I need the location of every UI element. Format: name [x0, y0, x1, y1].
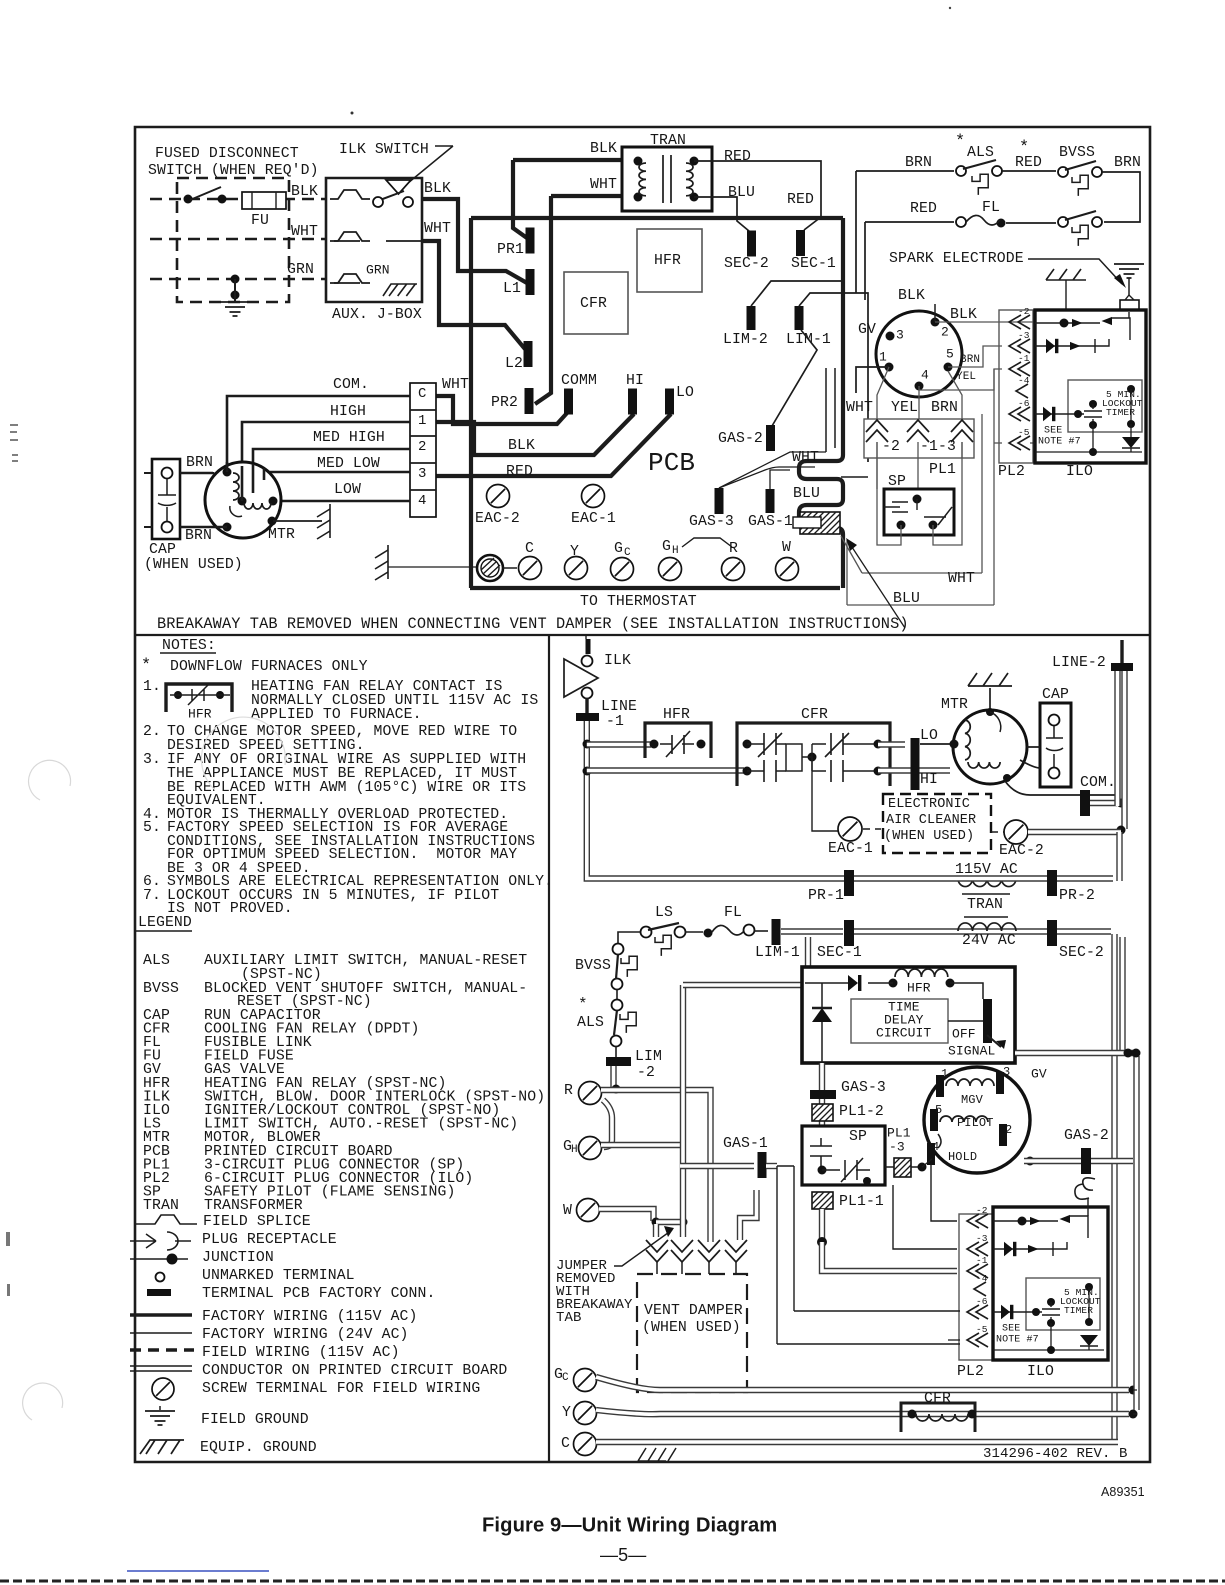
svg-text:1: 1: [418, 413, 427, 429]
svg-text:24V AC: 24V AC: [962, 933, 1016, 949]
svg-text:HFR: HFR: [188, 707, 212, 722]
svg-text:C: C: [624, 547, 631, 559]
svg-text:CFR: CFR: [580, 296, 607, 312]
svg-text:PL1: PL1: [887, 1126, 911, 1141]
svg-text:FL: FL: [724, 905, 742, 921]
svg-text:GAS-3: GAS-3: [689, 514, 734, 530]
svg-text:L2: L2: [505, 356, 523, 372]
svg-text:SEC-1: SEC-1: [817, 945, 862, 961]
svg-text:SCREW TERMINAL FOR FIELD WIRIN: SCREW TERMINAL FOR FIELD WIRING: [202, 1381, 480, 1397]
svg-text:SEC-2: SEC-2: [724, 256, 769, 272]
svg-text:*: *: [578, 996, 588, 1014]
svg-text:PCB: PCB: [648, 448, 695, 478]
svg-text:WHT: WHT: [590, 177, 617, 193]
svg-text:GAS-1: GAS-1: [748, 514, 793, 530]
svg-text:AIR CLEANER: AIR CLEANER: [886, 813, 976, 828]
svg-text:TRAN: TRAN: [143, 1198, 179, 1214]
svg-text:PILOT: PILOT: [957, 1116, 994, 1130]
svg-text:C: C: [561, 1436, 570, 1452]
svg-text:-1-3: -1-3: [920, 439, 956, 455]
svg-text:2: 2: [941, 325, 949, 340]
svg-text:TRANSFORMER: TRANSFORMER: [204, 1198, 303, 1214]
svg-text:-3: -3: [889, 1140, 905, 1155]
svg-text:-2: -2: [882, 439, 900, 455]
svg-text:2: 2: [418, 439, 427, 455]
svg-text:MED HIGH: MED HIGH: [313, 430, 385, 446]
svg-text:GAS-1: GAS-1: [723, 1136, 768, 1152]
svg-text:WHT: WHT: [948, 571, 975, 587]
svg-text:7.: 7.: [143, 888, 161, 904]
svg-text:3.: 3.: [143, 752, 161, 768]
svg-text:1.: 1.: [143, 679, 161, 695]
svg-text:LOW: LOW: [334, 482, 361, 498]
svg-text:NOTES:: NOTES:: [162, 638, 216, 654]
svg-text:L1: L1: [503, 281, 521, 297]
svg-text:5: 5: [935, 1103, 942, 1117]
svg-text:SPARK ELECTRODE: SPARK ELECTRODE: [889, 251, 1024, 267]
svg-text:W: W: [563, 1203, 572, 1219]
svg-text:PR-1: PR-1: [808, 888, 844, 904]
svg-text:WHT: WHT: [846, 400, 873, 416]
svg-text:HOLD: HOLD: [948, 1150, 977, 1164]
svg-text:SEE: SEE: [1044, 425, 1062, 436]
svg-text:-2: -2: [976, 1205, 988, 1216]
svg-text:PR1: PR1: [497, 242, 524, 258]
svg-text:FU: FU: [251, 213, 269, 229]
svg-text:BRN: BRN: [1114, 155, 1141, 171]
svg-text:BVSS: BVSS: [143, 981, 179, 997]
svg-text:3: 3: [418, 466, 427, 482]
svg-text:RED: RED: [724, 149, 751, 165]
svg-text:3: 3: [1003, 1065, 1010, 1079]
svg-text:314296-402 REV. B: 314296-402 REV. B: [983, 1446, 1128, 1462]
svg-text:BVSS: BVSS: [1059, 145, 1095, 161]
svg-text:-5: -5: [1018, 427, 1030, 438]
svg-text:GAS-2: GAS-2: [718, 431, 763, 447]
svg-text:CAP: CAP: [149, 542, 176, 558]
svg-text:FUSED DISCONNECT: FUSED DISCONNECT: [155, 146, 299, 162]
svg-text:NOTE #7: NOTE #7: [996, 1334, 1039, 1345]
svg-text:BRN: BRN: [185, 528, 212, 544]
svg-text:RED: RED: [506, 464, 533, 480]
svg-text:BLK: BLK: [590, 141, 617, 157]
svg-text:SP: SP: [888, 474, 906, 490]
svg-text:FL: FL: [982, 200, 1000, 216]
svg-text:G: G: [662, 539, 671, 555]
svg-text:(WHEN USED): (WHEN USED): [884, 829, 974, 844]
svg-text:BREAKAWAY TAB REMOVED WHEN CON: BREAKAWAY TAB REMOVED WHEN CONNECTING VE…: [157, 615, 909, 633]
svg-text:EAC-2: EAC-2: [999, 843, 1044, 859]
svg-text:SWITCH (WHEN REQ'D): SWITCH (WHEN REQ'D): [148, 163, 319, 179]
svg-text:BLK: BLK: [508, 438, 535, 454]
svg-text:C: C: [418, 386, 427, 402]
svg-text:HFR: HFR: [663, 707, 690, 723]
svg-text:SEC-1: SEC-1: [791, 256, 836, 272]
svg-text:OFF: OFF: [952, 1027, 976, 1042]
svg-text:EAC-1: EAC-1: [571, 511, 616, 527]
svg-text:CONDUCTOR ON PRINTED CIRCUIT B: CONDUCTOR ON PRINTED CIRCUIT BOARD: [202, 1363, 507, 1379]
svg-text:H: H: [571, 1144, 578, 1156]
svg-text:LIM: LIM: [635, 1049, 662, 1065]
svg-text:-4: -4: [976, 1273, 988, 1284]
svg-text:Y: Y: [570, 544, 579, 560]
svg-text:BRN: BRN: [960, 354, 980, 366]
svg-text:4: 4: [418, 493, 427, 509]
svg-text:EAC-2: EAC-2: [475, 511, 520, 527]
svg-text:Y: Y: [562, 1405, 571, 1421]
svg-text:RED: RED: [787, 192, 814, 208]
svg-text:1: 1: [941, 1067, 948, 1081]
svg-text:HIGH: HIGH: [330, 404, 366, 420]
svg-text:TAB: TAB: [556, 1310, 582, 1326]
svg-text:AUX. J-BOX: AUX. J-BOX: [332, 307, 422, 323]
svg-text:GAS-3: GAS-3: [841, 1080, 886, 1096]
svg-text:BRN: BRN: [931, 400, 958, 416]
svg-text:BLU: BLU: [728, 185, 755, 201]
svg-text:*: *: [141, 656, 151, 675]
svg-text:DOWNFLOW FURNACES ONLY: DOWNFLOW FURNACES ONLY: [170, 659, 368, 675]
svg-text:GV: GV: [1031, 1067, 1047, 1082]
svg-text:COMM: COMM: [561, 373, 597, 389]
svg-text:ILK SWITCH: ILK SWITCH: [339, 142, 429, 158]
svg-text:TO THERMOSTAT: TO THERMOSTAT: [580, 594, 697, 610]
svg-text:PR2: PR2: [491, 395, 518, 411]
svg-text:CIRCUIT: CIRCUIT: [876, 1026, 931, 1041]
svg-text:W: W: [782, 540, 791, 556]
svg-text:YEL: YEL: [891, 400, 918, 416]
svg-text:MED LOW: MED LOW: [317, 456, 380, 472]
svg-text:SEC-2: SEC-2: [1059, 945, 1104, 961]
svg-text:5.: 5.: [143, 820, 161, 836]
svg-text:LO: LO: [920, 728, 938, 744]
svg-text:WHT: WHT: [442, 377, 469, 393]
svg-text:LEGEND: LEGEND: [138, 915, 192, 931]
svg-text:—5—: —5—: [600, 1545, 646, 1565]
svg-text:HFR: HFR: [654, 253, 681, 269]
svg-text:ALS: ALS: [967, 145, 994, 161]
svg-text:NOTE #7: NOTE #7: [1038, 436, 1081, 447]
svg-text:ALS: ALS: [577, 1015, 604, 1031]
svg-text:-1: -1: [1018, 353, 1030, 364]
svg-text:JUNCTION: JUNCTION: [202, 1250, 274, 1266]
svg-text:VENT DAMPER: VENT DAMPER: [644, 1303, 743, 1319]
svg-text:GRN: GRN: [366, 263, 390, 278]
svg-text:TERMINAL PCB FACTORY CONN.: TERMINAL PCB FACTORY CONN.: [202, 1286, 435, 1302]
svg-text:-3: -3: [976, 1233, 988, 1244]
svg-text:-3: -3: [1018, 330, 1030, 341]
svg-text:LIM-2: LIM-2: [723, 332, 768, 348]
svg-text:YEL: YEL: [956, 371, 976, 383]
svg-text:EAC-1: EAC-1: [828, 841, 873, 857]
svg-text:C: C: [562, 1372, 569, 1384]
svg-text:BLK: BLK: [950, 307, 977, 323]
svg-text:4: 4: [921, 368, 929, 383]
svg-text:(WHEN USED): (WHEN USED): [144, 557, 243, 573]
svg-text:ILO: ILO: [1066, 464, 1093, 480]
svg-text:CFR: CFR: [801, 707, 828, 723]
svg-text:BRN: BRN: [905, 155, 932, 171]
svg-text:R: R: [564, 1083, 573, 1099]
svg-text:HI: HI: [626, 373, 644, 389]
svg-text:2: 2: [1005, 1123, 1012, 1137]
svg-text:RED: RED: [1015, 155, 1042, 171]
svg-text:PLUG RECEPTACLE: PLUG RECEPTACLE: [202, 1232, 337, 1248]
svg-text:MTR: MTR: [941, 697, 968, 713]
svg-text:FIELD GROUND: FIELD GROUND: [201, 1412, 309, 1428]
svg-text:BLK: BLK: [291, 184, 318, 200]
svg-text:ELECTRONIC: ELECTRONIC: [888, 797, 970, 812]
svg-text:R: R: [729, 541, 738, 557]
svg-text:*: *: [955, 132, 965, 151]
svg-text:HI: HI: [920, 772, 938, 788]
svg-text:PL1-2: PL1-2: [839, 1104, 884, 1120]
svg-text:FIELD SPLICE: FIELD SPLICE: [203, 1214, 311, 1230]
svg-text:PL1: PL1: [929, 462, 956, 478]
svg-text:GV: GV: [858, 322, 876, 338]
svg-text:CFR: CFR: [924, 1391, 951, 1407]
svg-text:5: 5: [946, 347, 954, 362]
svg-text:GAS-2: GAS-2: [1064, 1128, 1109, 1144]
svg-text:BRN: BRN: [186, 455, 213, 471]
svg-text:WHT: WHT: [291, 224, 318, 240]
svg-text:MGV: MGV: [961, 1093, 984, 1107]
svg-text:PL1-1: PL1-1: [839, 1194, 884, 1210]
svg-text:LINE: LINE: [601, 699, 637, 715]
svg-text:PL2: PL2: [998, 464, 1025, 480]
svg-text:SP: SP: [849, 1129, 867, 1145]
svg-text:SEE: SEE: [1002, 1323, 1020, 1334]
svg-text:PL2: PL2: [957, 1364, 984, 1380]
svg-text:1: 1: [879, 350, 887, 365]
svg-text:3: 3: [896, 328, 904, 343]
svg-text:A89351: A89351: [1101, 1485, 1145, 1499]
svg-text:UNMARKED TERMINAL: UNMARKED TERMINAL: [202, 1268, 355, 1284]
svg-text:EQUIP. GROUND: EQUIP. GROUND: [200, 1440, 317, 1456]
svg-text:-1: -1: [606, 714, 624, 730]
svg-text:-6: -6: [1018, 398, 1030, 409]
svg-text:BVSS: BVSS: [575, 958, 611, 974]
svg-text:LIM-1: LIM-1: [755, 945, 800, 961]
svg-text:2.: 2.: [143, 724, 161, 740]
svg-text:APPLIED TO FURNACE.: APPLIED TO FURNACE.: [251, 707, 422, 723]
svg-text:TRAN: TRAN: [967, 897, 1003, 913]
svg-text:FACTORY WIRING (24V AC): FACTORY WIRING (24V AC): [202, 1327, 409, 1343]
svg-text:HFR: HFR: [907, 981, 931, 996]
svg-text:LINE-2: LINE-2: [1052, 655, 1106, 671]
svg-text:BLU: BLU: [893, 591, 920, 607]
svg-text:BLU: BLU: [793, 486, 820, 502]
svg-text:-2: -2: [1018, 306, 1030, 317]
svg-text:-5: -5: [976, 1324, 988, 1335]
svg-text:COM.: COM.: [1080, 775, 1116, 791]
svg-text:CAP: CAP: [1042, 687, 1069, 703]
svg-text:BLK: BLK: [898, 288, 925, 304]
svg-text:G: G: [614, 541, 623, 557]
svg-text:LO: LO: [676, 385, 694, 401]
svg-text:RED: RED: [910, 201, 937, 217]
svg-text:FACTORY WIRING (115V AC): FACTORY WIRING (115V AC): [202, 1309, 418, 1325]
svg-text:PR-2: PR-2: [1059, 888, 1095, 904]
svg-text:SIGNAL: SIGNAL: [948, 1044, 995, 1059]
svg-text:BLK: BLK: [424, 181, 451, 197]
svg-text:TRAN: TRAN: [650, 133, 686, 149]
svg-text:-4: -4: [1018, 375, 1030, 386]
svg-text:COM.: COM.: [333, 377, 369, 393]
svg-text:ILK: ILK: [604, 653, 631, 669]
svg-text:WHT: WHT: [424, 221, 451, 237]
svg-text:Figure 9—Unit Wiring Diagram: Figure 9—Unit Wiring Diagram: [482, 1515, 777, 1537]
svg-text:C: C: [525, 541, 534, 557]
svg-text:LS: LS: [655, 905, 673, 921]
svg-text:GRN: GRN: [287, 262, 314, 278]
svg-text:-6: -6: [976, 1296, 988, 1307]
svg-text:MTR: MTR: [268, 527, 295, 543]
svg-text:FIELD WIRING (115V AC): FIELD WIRING (115V AC): [202, 1345, 400, 1361]
svg-text:ALS: ALS: [143, 953, 170, 969]
svg-text:(WHEN USED): (WHEN USED): [642, 1320, 741, 1336]
svg-text:-1: -1: [976, 1255, 988, 1266]
svg-text:H: H: [672, 545, 679, 557]
svg-text:ILO: ILO: [1027, 1364, 1054, 1380]
svg-text:-2: -2: [637, 1065, 655, 1081]
